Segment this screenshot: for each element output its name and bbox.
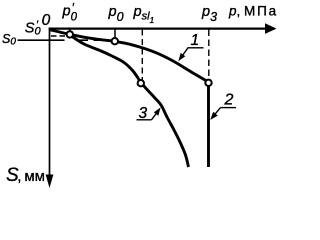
svg-text:S, мм: S, мм [6, 165, 45, 186]
svg-text:1: 1 [191, 32, 200, 49]
svg-text:p, МПа: p, МПа [228, 4, 278, 19]
line 2 (vertical) [207, 86, 210, 167]
marker circle D (p3) [205, 80, 211, 86]
p0' tick [69, 30, 71, 32]
marker circle C (psl1) [138, 80, 144, 86]
curve label 2 with leader [210, 92, 236, 120]
S0 level line (solid part) [18, 39, 65, 41]
S0 level line (dashed part) [78, 39, 111, 41]
svg-text:2: 2 [224, 92, 234, 109]
curve label 1 with leader [178, 32, 203, 61]
marker circle B (p0, S0) [112, 38, 118, 44]
psl1 dashed drop line [141, 30, 143, 81]
p3 dashed drop line [208, 30, 210, 80]
S0' dashed level line [51, 35, 67, 37]
curve 3 [71, 36, 189, 168]
svg-text:0: 0 [42, 12, 51, 29]
curve 1 [50, 30, 206, 81]
p0 drop line [114, 30, 116, 39]
marker circle A (p0', S0') [67, 31, 73, 37]
curve label 3 with leader [137, 105, 161, 122]
S axis [46, 28, 54, 189]
p axis [49, 23, 277, 34]
